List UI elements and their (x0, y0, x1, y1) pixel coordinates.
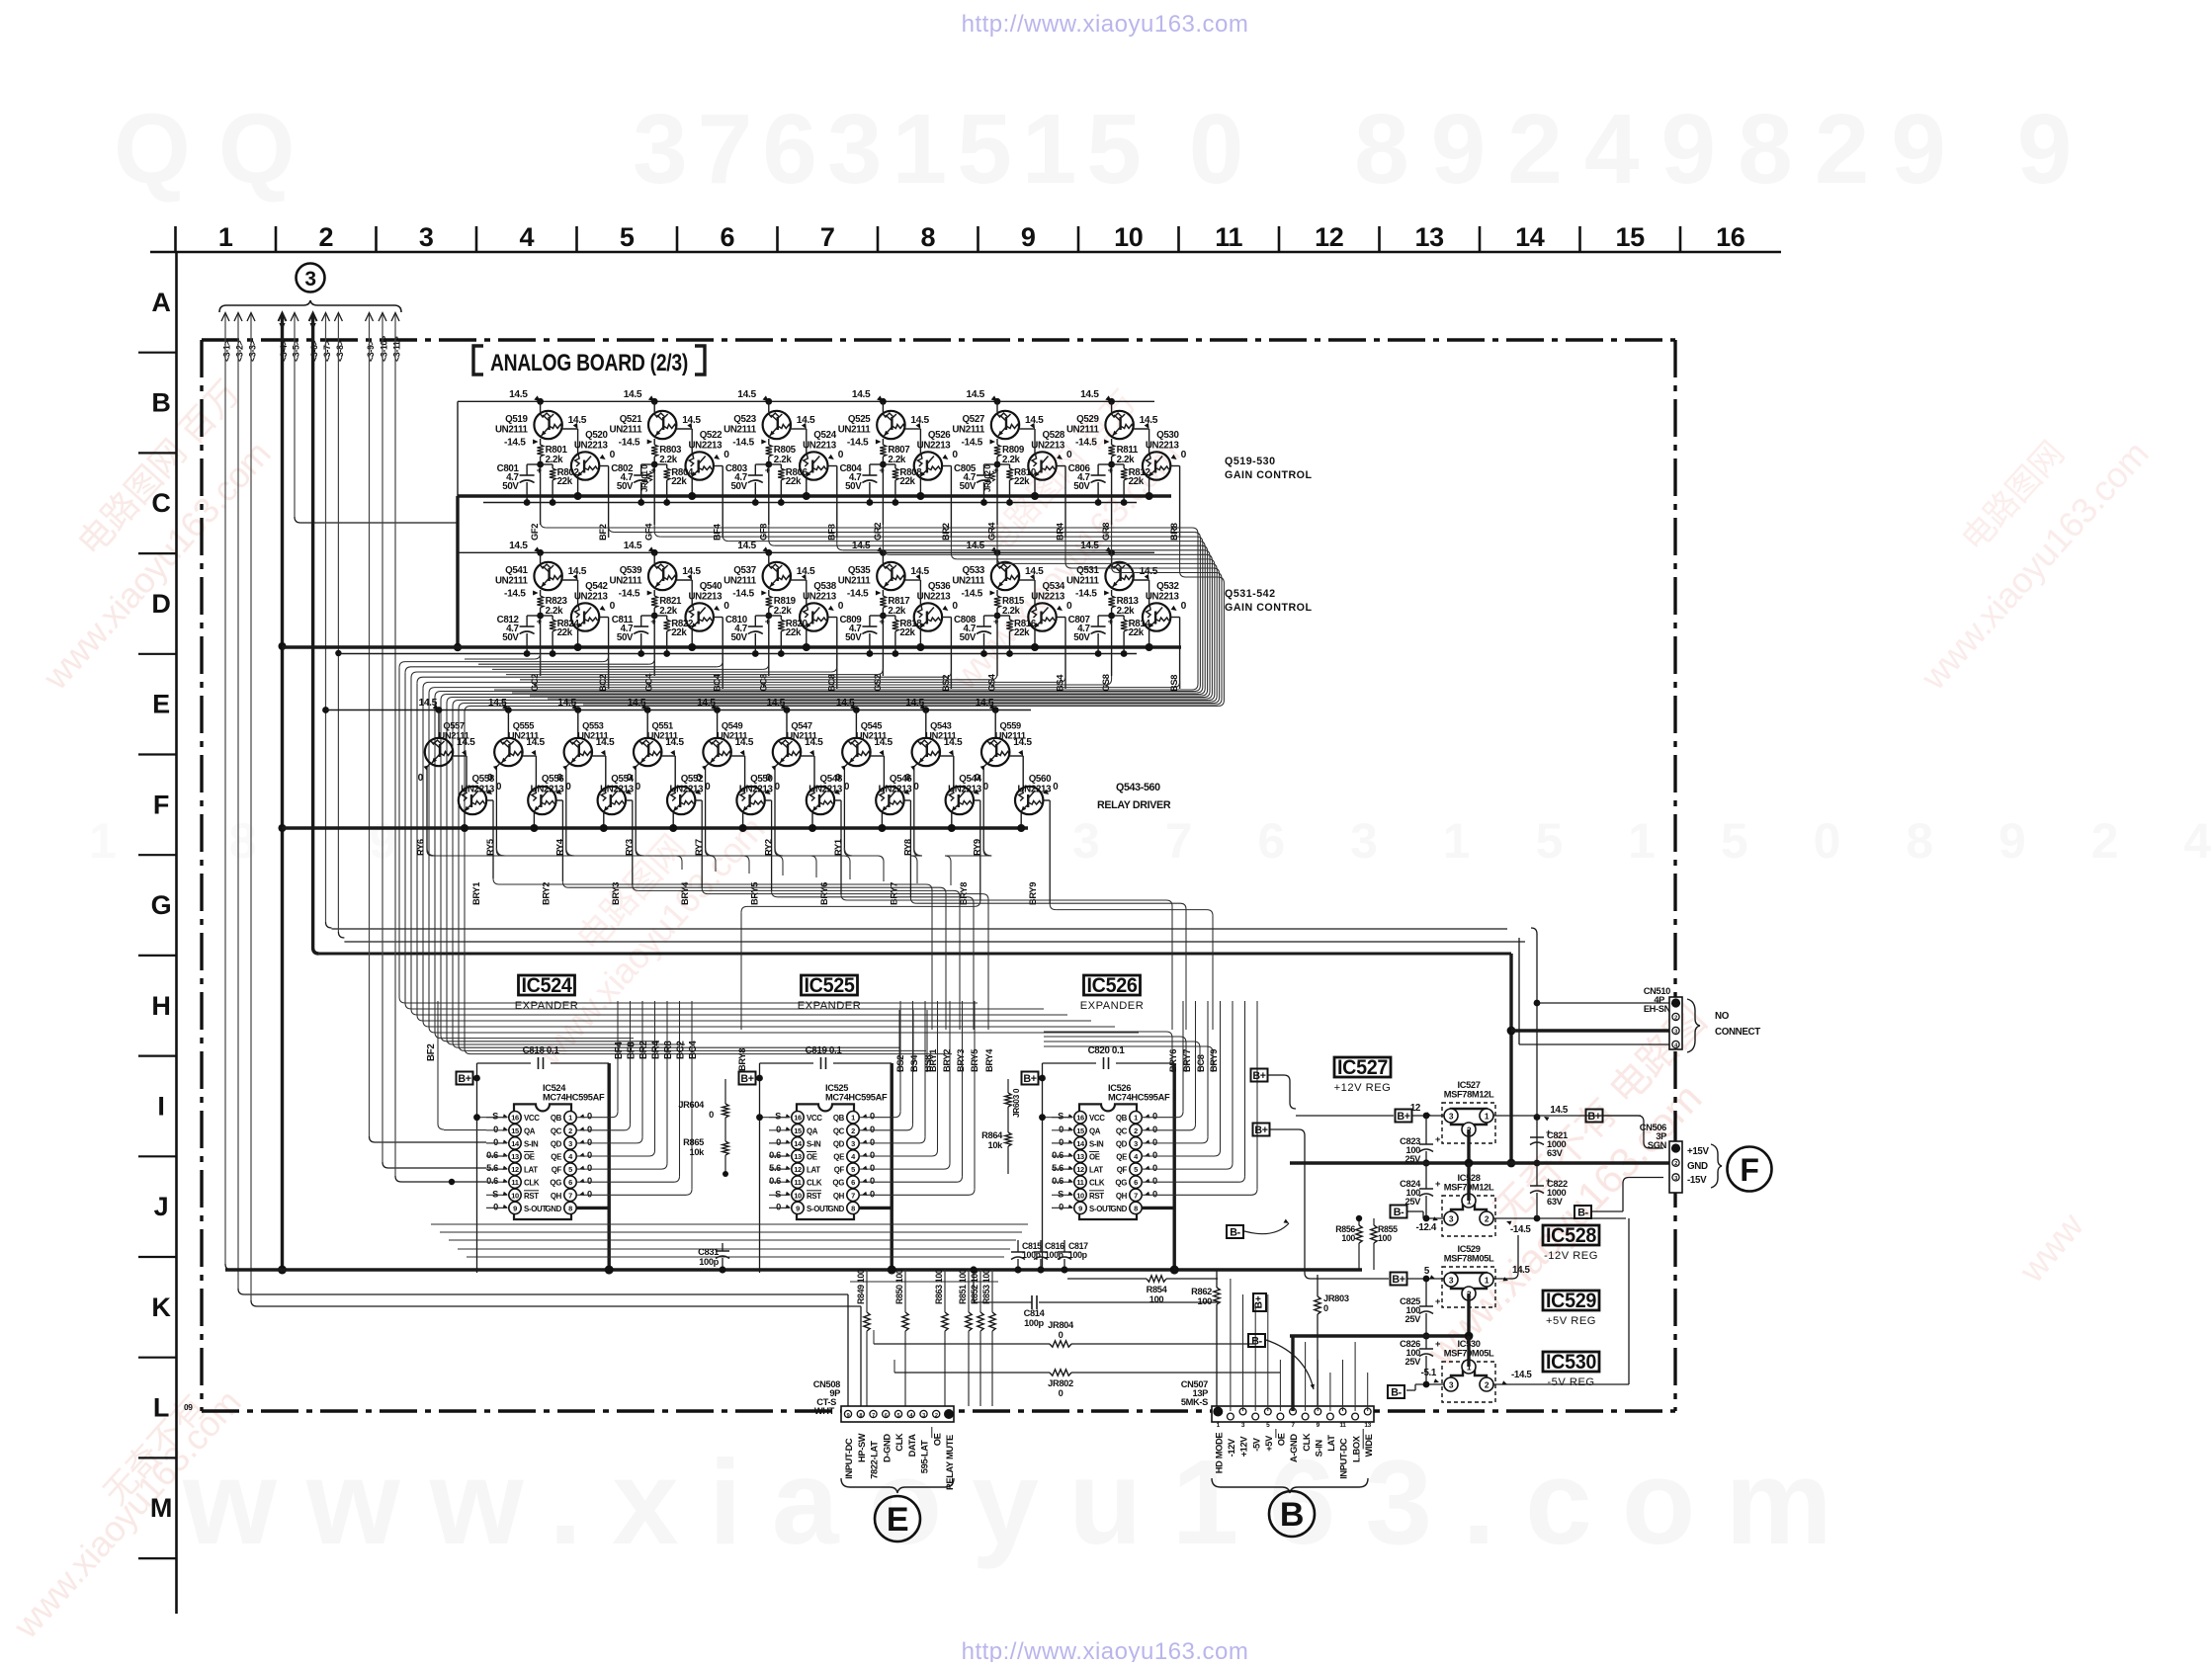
svg-text:QE: QE (551, 1153, 561, 1162)
svg-text:50V: 50V (730, 632, 747, 643)
svg-text:8: 8 (1134, 1204, 1138, 1212)
svg-text:Q531: Q531 (1076, 565, 1099, 576)
svg-text:-15V: -15V (1687, 1175, 1707, 1186)
IC524 pin 2 QC (564, 1125, 576, 1136)
resistor JR601 0 ohm (647, 471, 652, 481)
svg-text:14.5: 14.5 (624, 541, 642, 551)
wire 3-7 entry arrow (322, 313, 330, 322)
svg-text:UN2111: UN2111 (495, 425, 529, 436)
svg-text:0: 0 (1059, 1330, 1063, 1340)
IC526 pin 7 QH (1130, 1189, 1142, 1201)
svg-text:1: 1 (568, 1114, 572, 1123)
svg-text:OE: OE (1089, 1153, 1100, 1162)
IC525 pin 9 S-OUT (792, 1202, 804, 1213)
IC526 pin 15 QA (1074, 1125, 1086, 1136)
IC525 pin 8 GND (847, 1202, 859, 1213)
svg-text:INPUT-DC: INPUT-DC (844, 1438, 854, 1479)
wire 3-4 bold (281, 314, 284, 1270)
wire 3-9 entry arrow (366, 313, 374, 322)
svg-text:3: 3 (1674, 1176, 1677, 1182)
svg-text:0: 0 (587, 1176, 592, 1186)
svg-text:Q540: Q540 (700, 581, 723, 592)
IC524 pin 4 QE (564, 1150, 576, 1162)
svg-text:7: 7 (872, 1413, 875, 1419)
svg-text:22k: 22k (1014, 627, 1030, 638)
svg-text:0.6: 0.6 (486, 1150, 498, 1160)
svg-text:BF2: BF2 (426, 1043, 437, 1061)
svg-text:Q525: Q525 (848, 414, 871, 425)
svg-text:12: 12 (511, 1165, 519, 1174)
svg-text:8: 8 (851, 1204, 855, 1212)
CN510 pin 3 (1672, 1027, 1679, 1034)
svg-text:Q535: Q535 (848, 565, 871, 576)
svg-text:BRY3: BRY3 (956, 1049, 966, 1072)
svg-text:100: 100 (1149, 1294, 1164, 1304)
IC525 pin 13 OE (792, 1150, 804, 1162)
IC529 output 14.5 (1493, 1278, 1512, 1280)
svg-text:10: 10 (794, 1191, 802, 1200)
bold A-GND wire (1291, 1336, 1294, 1411)
capacitor C831 100p (722, 1243, 723, 1251)
svg-text:50V: 50V (845, 481, 862, 492)
svg-text:5: 5 (568, 1165, 572, 1174)
svg-text:2: 2 (1674, 1161, 1677, 1167)
svg-text:S: S (1058, 1112, 1063, 1122)
svg-text:Q543: Q543 (930, 721, 952, 731)
svg-text:LAT: LAT (1089, 1166, 1103, 1175)
svg-text:0: 0 (838, 601, 844, 612)
row2 thin ground line (338, 653, 1137, 655)
svg-text:22k: 22k (671, 476, 687, 487)
svg-text:37631515 0: 37631515 0 (633, 94, 1253, 205)
svg-text:R849 100: R849 100 (856, 1269, 866, 1304)
resistor R816 22k (997, 615, 1010, 617)
svg-text:<3-9>: <3-9> (366, 340, 376, 362)
IC526 pin 3 QD (1130, 1137, 1142, 1149)
capacitor C807 4.7/50V (1098, 615, 1112, 617)
svg-text:0: 0 (1066, 601, 1072, 612)
wire 3-10 (382, 314, 383, 1162)
IC525 pin 15 QA (792, 1125, 804, 1136)
transistor Q534 (UN2213) (1028, 603, 1056, 630)
svg-text:3: 3 (1449, 1380, 1454, 1390)
svg-text:Q538: Q538 (813, 581, 836, 592)
board outline dash-dot frame (202, 338, 1675, 341)
svg-text:+: + (765, 465, 771, 475)
IC524 pin 11 CLK (509, 1176, 521, 1188)
svg-text:0: 0 (1152, 1137, 1157, 1147)
row1 bold bus drop to row2 (456, 496, 459, 647)
svg-text:Q545: Q545 (861, 721, 883, 731)
svg-text:http://www.xiaoyu163.com: http://www.xiaoyu163.com (962, 11, 1249, 38)
bold GND right vertical (891, 1063, 893, 1270)
svg-text:RY5: RY5 (485, 839, 495, 856)
svg-text:B+: B+ (1397, 1111, 1409, 1123)
transistor Q548 (UN2213) (807, 787, 834, 814)
RY net horizontal runs (427, 848, 435, 856)
svg-text:+: + (1108, 617, 1114, 626)
svg-text:QD: QD (1116, 1139, 1128, 1148)
svg-text:S: S (492, 1112, 498, 1122)
CN507 pin 12 (1352, 1413, 1359, 1420)
svg-text:22k: 22k (671, 627, 687, 638)
svg-text:-14.5: -14.5 (961, 589, 982, 600)
svg-text:JR604: JR604 (678, 1100, 705, 1110)
svg-text:BF8: BF8 (627, 1042, 638, 1059)
svg-text:100: 100 (1198, 1296, 1213, 1306)
svg-text:IC528: IC528 (1546, 1224, 1597, 1247)
svg-text:0: 0 (776, 1125, 781, 1134)
IC530 heading (1543, 1352, 1599, 1372)
svg-text:C814: C814 (1024, 1308, 1046, 1318)
svg-text:0: 0 (1059, 1137, 1063, 1147)
row3 bold emitter bus (283, 826, 1029, 829)
svg-text:0: 0 (696, 773, 702, 784)
svg-text:8: 8 (859, 1413, 862, 1419)
resistor R803 2.2k (653, 439, 655, 445)
net RY2 wire (775, 763, 779, 767)
svg-text:5.6: 5.6 (1052, 1163, 1063, 1173)
svg-text:0.6: 0.6 (1052, 1150, 1063, 1160)
svg-text:50V: 50V (960, 632, 977, 643)
svg-text:BR4: BR4 (651, 1041, 662, 1059)
svg-text:D-GND: D-GND (883, 1434, 893, 1462)
net label B- box lower (1248, 1334, 1265, 1347)
svg-text:1: 1 (1485, 1112, 1489, 1122)
svg-text:0: 0 (952, 450, 958, 460)
svg-text:R850 100: R850 100 (894, 1269, 904, 1304)
svg-text:RY6: RY6 (416, 839, 426, 856)
svg-text:0: 0 (904, 773, 910, 784)
svg-text:DATA: DATA (907, 1434, 917, 1458)
resistor R807 2.2k (882, 439, 884, 445)
svg-text:-14.5: -14.5 (1511, 1370, 1532, 1380)
svg-text:Q553: Q553 (582, 721, 604, 731)
svg-text:UN2213: UN2213 (688, 592, 723, 603)
svg-text:CLK: CLK (807, 1179, 822, 1188)
capacitor C809 4.7/50V (870, 615, 884, 617)
svg-text:RY3: RY3 (625, 839, 635, 856)
capacitor C815 100p (1017, 1240, 1019, 1252)
BRY net horizontal runs (492, 876, 494, 878)
svg-text:MC74HC595AF: MC74HC595AF (543, 1093, 605, 1103)
svg-text:5.6: 5.6 (486, 1163, 498, 1173)
svg-text:50V: 50V (960, 481, 977, 492)
IC524 pin 14 S-IN (509, 1137, 521, 1149)
C825 100 25V (1425, 1279, 1427, 1306)
IC525 pin 11 CLK (792, 1176, 804, 1188)
transistor Q524 (UN2213) (800, 452, 827, 479)
svg-text:Q529: Q529 (1076, 414, 1099, 425)
svg-text:+12V: +12V (1239, 1436, 1249, 1458)
svg-text:Q520: Q520 (585, 430, 608, 441)
svg-text:14.5: 14.5 (737, 541, 756, 551)
svg-text:BR4: BR4 (1056, 522, 1065, 541)
svg-text:15: 15 (794, 1126, 802, 1135)
IC526 GND bold wire (1143, 1207, 1175, 1209)
svg-text:13: 13 (1415, 222, 1445, 252)
svg-text:CLK: CLK (1089, 1179, 1105, 1188)
svg-text:C820 0.1: C820 0.1 (1088, 1045, 1126, 1056)
svg-text:7822-LAT: 7822-LAT (870, 1441, 880, 1479)
svg-text:S-IN: S-IN (1315, 1440, 1324, 1458)
svg-text:Q560: Q560 (1029, 774, 1052, 785)
svg-text:QF: QF (834, 1166, 845, 1175)
svg-text:16: 16 (1076, 1114, 1084, 1123)
svg-text:Q534: Q534 (1043, 581, 1065, 592)
svg-text:50V: 50V (1073, 481, 1090, 492)
svg-text:3: 3 (419, 222, 434, 252)
svg-text:2: 2 (568, 1126, 572, 1135)
svg-text:Q532: Q532 (1156, 581, 1179, 592)
svg-text:-14.5: -14.5 (619, 589, 640, 600)
transistor Q536 (UN2213) (914, 603, 942, 630)
svg-text:-14.5: -14.5 (961, 438, 982, 449)
net RY5 wire (496, 763, 500, 767)
svg-text:0: 0 (587, 1163, 592, 1173)
capacitor C819 0.1 (820, 1057, 822, 1069)
svg-text:Q522: Q522 (700, 430, 723, 441)
svg-text:13: 13 (1076, 1152, 1084, 1161)
CN510 brace (1687, 999, 1700, 1052)
svg-text:IC526: IC526 (1087, 974, 1138, 997)
svg-text:F: F (1740, 1152, 1758, 1188)
svg-text:16: 16 (1716, 222, 1745, 252)
svg-text:RY7: RY7 (694, 839, 704, 856)
svg-text:B+: B+ (1254, 1125, 1267, 1136)
svg-text:12: 12 (1315, 222, 1343, 252)
svg-text:50V: 50V (617, 632, 634, 643)
wire 3-6 bold (311, 314, 314, 948)
svg-text:0: 0 (1181, 601, 1187, 612)
IC528 output wire -14.5 B- (1493, 1217, 1626, 1219)
wire 3-9 (369, 314, 371, 1136)
svg-text:R864: R864 (981, 1130, 1003, 1140)
IC527 heading (1334, 1057, 1391, 1077)
svg-text:UN2213: UN2213 (803, 592, 837, 603)
resistor JR602 0 ohm (990, 471, 995, 481)
svg-text:14.5: 14.5 (1550, 1105, 1569, 1116)
IC525 pin 10 RST (792, 1189, 804, 1201)
svg-text:0: 0 (610, 601, 616, 612)
svg-text:15: 15 (1616, 222, 1646, 252)
svg-text:0: 0 (870, 1125, 875, 1134)
svg-text:BRY3: BRY3 (611, 882, 621, 905)
transistor Q550 (UN2213) (736, 787, 764, 814)
resistor R813 2.2k (1111, 590, 1113, 596)
svg-text:0: 0 (1059, 1388, 1063, 1398)
svg-text:3: 3 (851, 1139, 855, 1148)
svg-text:Q530: Q530 (1156, 430, 1179, 441)
svg-text:3: 3 (1449, 1112, 1454, 1122)
svg-text:Q521: Q521 (620, 414, 642, 425)
net label B+ box (457, 1072, 473, 1085)
svg-text:14.5: 14.5 (967, 389, 985, 400)
svg-text:16: 16 (511, 1114, 519, 1123)
transistor Q554 (UN2213) (598, 787, 626, 814)
bundle brace (219, 300, 401, 312)
resistor JR603 0 (1007, 1079, 1009, 1093)
CN508 pin 6 (883, 1410, 890, 1417)
row1 left closure wire (457, 401, 459, 496)
svg-text:14.5: 14.5 (624, 389, 642, 400)
IC524 pin 12 LAT (509, 1163, 521, 1175)
wire 3-6 entry arrow (309, 313, 317, 322)
net BRY6 wire (834, 799, 841, 801)
svg-text:-14.5: -14.5 (1510, 1224, 1531, 1235)
svg-text:GF8: GF8 (758, 524, 768, 541)
CN508 pin 7 (870, 1410, 877, 1417)
transistor Q542 (UN2213) (571, 603, 599, 630)
svg-text:JR802: JR802 (1048, 1378, 1073, 1388)
svg-text:3: 3 (1449, 1276, 1454, 1286)
svg-text:GND: GND (827, 1205, 844, 1213)
svg-text:IC524: IC524 (543, 1083, 566, 1093)
svg-text:14.5: 14.5 (797, 566, 815, 577)
svg-text:G: G (151, 890, 172, 920)
svg-text:-5.1: -5.1 (1421, 1368, 1437, 1378)
svg-text:BC2: BC2 (676, 1041, 687, 1059)
svg-text:UN2213: UN2213 (574, 441, 609, 452)
resistor R854 100 (1067, 1278, 1147, 1280)
svg-text:WIDE: WIDE (1364, 1434, 1374, 1457)
svg-text:QA: QA (1089, 1126, 1101, 1135)
svg-text:RST: RST (1089, 1192, 1104, 1201)
IC524 pin 10 RST (509, 1189, 521, 1201)
IC526 pin 12 LAT (1074, 1163, 1086, 1175)
svg-text:MC74HC595AF: MC74HC595AF (825, 1093, 888, 1103)
C821 1000 63V (1530, 1136, 1544, 1138)
resistor R862 100 (1216, 1270, 1218, 1288)
svg-text:14: 14 (794, 1139, 803, 1148)
net label B+ box (1251, 1069, 1268, 1082)
svg-text:0: 0 (1181, 450, 1187, 460)
svg-text:0: 0 (1059, 1202, 1063, 1211)
svg-text:14: 14 (511, 1139, 520, 1148)
net BRY2 wire (556, 799, 563, 801)
svg-text:0: 0 (1323, 1303, 1328, 1313)
svg-text:S: S (775, 1112, 781, 1122)
svg-text:11: 11 (511, 1178, 518, 1187)
svg-text:2: 2 (1674, 1016, 1677, 1022)
capacitor C811 4.7/50V (641, 615, 655, 617)
resistor R864 10k (1007, 1107, 1009, 1132)
svg-text:0: 0 (870, 1150, 875, 1160)
svg-text:RY4: RY4 (554, 838, 564, 856)
svg-text:JR601 0: JR601 0 (640, 464, 649, 492)
svg-text:22k: 22k (557, 476, 573, 487)
svg-text:RST: RST (807, 1192, 821, 1201)
svg-text:5MK-S: 5MK-S (1181, 1397, 1208, 1407)
svg-text:BRY9: BRY9 (1028, 882, 1038, 905)
IC IC525 expander block (802, 975, 858, 995)
svg-text:CLK: CLK (894, 1433, 904, 1452)
svg-text:UN2111: UN2111 (723, 576, 757, 587)
svg-text:14.5: 14.5 (457, 737, 475, 748)
svg-text:C: C (151, 488, 170, 518)
svg-text:QE: QE (1116, 1153, 1127, 1162)
resistor R856 100 (1358, 1218, 1360, 1225)
resistor R805 2.2k (768, 439, 770, 445)
page border ruler top (150, 251, 1781, 254)
transistor Q558 (UN2213) (459, 787, 486, 814)
IC530 pin1 bold from A-GND (1467, 1336, 1470, 1367)
CN506 pin 3 (1672, 1174, 1679, 1181)
svg-text:H: H (151, 991, 170, 1021)
svg-text:0: 0 (1152, 1189, 1157, 1199)
svg-text:14.5: 14.5 (568, 566, 587, 577)
transistor Q530 (UN2213) (1143, 452, 1170, 479)
svg-text:0: 0 (1152, 1163, 1157, 1173)
svg-text:LAT: LAT (807, 1166, 820, 1175)
resistor R815 2.2k (996, 590, 998, 596)
svg-text:16: 16 (794, 1114, 802, 1123)
svg-text:2: 2 (1485, 1380, 1489, 1390)
net BRY9 wire (1043, 799, 1050, 801)
transistor Q528 (UN2213) (1028, 452, 1056, 479)
svg-text:MC74HC595AF: MC74HC595AF (1108, 1093, 1170, 1103)
svg-text:SGN: SGN (1648, 1140, 1667, 1150)
svg-text:EXPANDER: EXPANDER (798, 1000, 862, 1012)
svg-text:GR4: GR4 (987, 522, 997, 541)
svg-text:Q549: Q549 (722, 721, 743, 731)
CN510 pin 1 (1671, 998, 1680, 1007)
wire 3-3 entry arrow (247, 313, 255, 322)
svg-text:B-: B- (1230, 1227, 1240, 1239)
capacitor C801 4.7/50V (527, 463, 541, 465)
svg-text:11: 11 (794, 1178, 801, 1187)
svg-text:14.5: 14.5 (526, 737, 545, 748)
svg-text:7: 7 (820, 222, 835, 252)
svg-text:14: 14 (1515, 222, 1545, 252)
svg-text:22k: 22k (557, 627, 573, 638)
net RY3 wire (636, 763, 639, 767)
svg-text:BC4: BC4 (688, 1041, 699, 1059)
svg-text:B-: B- (1394, 1207, 1404, 1218)
svg-text:0: 0 (870, 1176, 875, 1186)
svg-text:QC: QC (551, 1126, 562, 1135)
svg-text:UN2111: UN2111 (723, 425, 757, 436)
resistor R811 2.2k (1111, 439, 1113, 445)
wire 3-11 entry arrow (391, 313, 399, 322)
svg-text:C819 0.1: C819 0.1 (806, 1045, 843, 1056)
resistor R809 2.2k (996, 439, 998, 445)
svg-text:LAT: LAT (1326, 1435, 1336, 1452)
IC524 pin 13 OE (509, 1150, 521, 1162)
svg-text:10: 10 (511, 1191, 519, 1200)
svg-text:0: 0 (493, 1137, 498, 1147)
row2 top rail wire (458, 551, 1154, 553)
net label B+ box near CN507 (1253, 1293, 1266, 1311)
svg-text:12: 12 (794, 1165, 802, 1174)
svg-text:11: 11 (1215, 222, 1242, 252)
net label B+ box (1586, 1110, 1603, 1123)
CN508 pin 9 (844, 1410, 851, 1417)
svg-text:50V: 50V (1073, 632, 1090, 643)
svg-text:1 8 9: 1 8 9 (89, 813, 446, 869)
svg-text:GF2: GF2 (530, 524, 540, 541)
svg-text:0: 0 (723, 450, 729, 460)
svg-text:3: 3 (1674, 1030, 1677, 1036)
svg-text:EXPANDER: EXPANDER (1080, 1000, 1145, 1012)
IC524 GND bold wire (577, 1207, 610, 1209)
svg-text:B-: B- (1251, 1336, 1262, 1348)
svg-text:L.BOX: L.BOX (1351, 1435, 1361, 1462)
capacitor C806 4.7/50V (1098, 463, 1112, 465)
svg-text:100p: 100p (699, 1257, 719, 1267)
svg-text:6: 6 (851, 1178, 855, 1187)
svg-text:<3-5>: <3-5> (292, 340, 301, 362)
